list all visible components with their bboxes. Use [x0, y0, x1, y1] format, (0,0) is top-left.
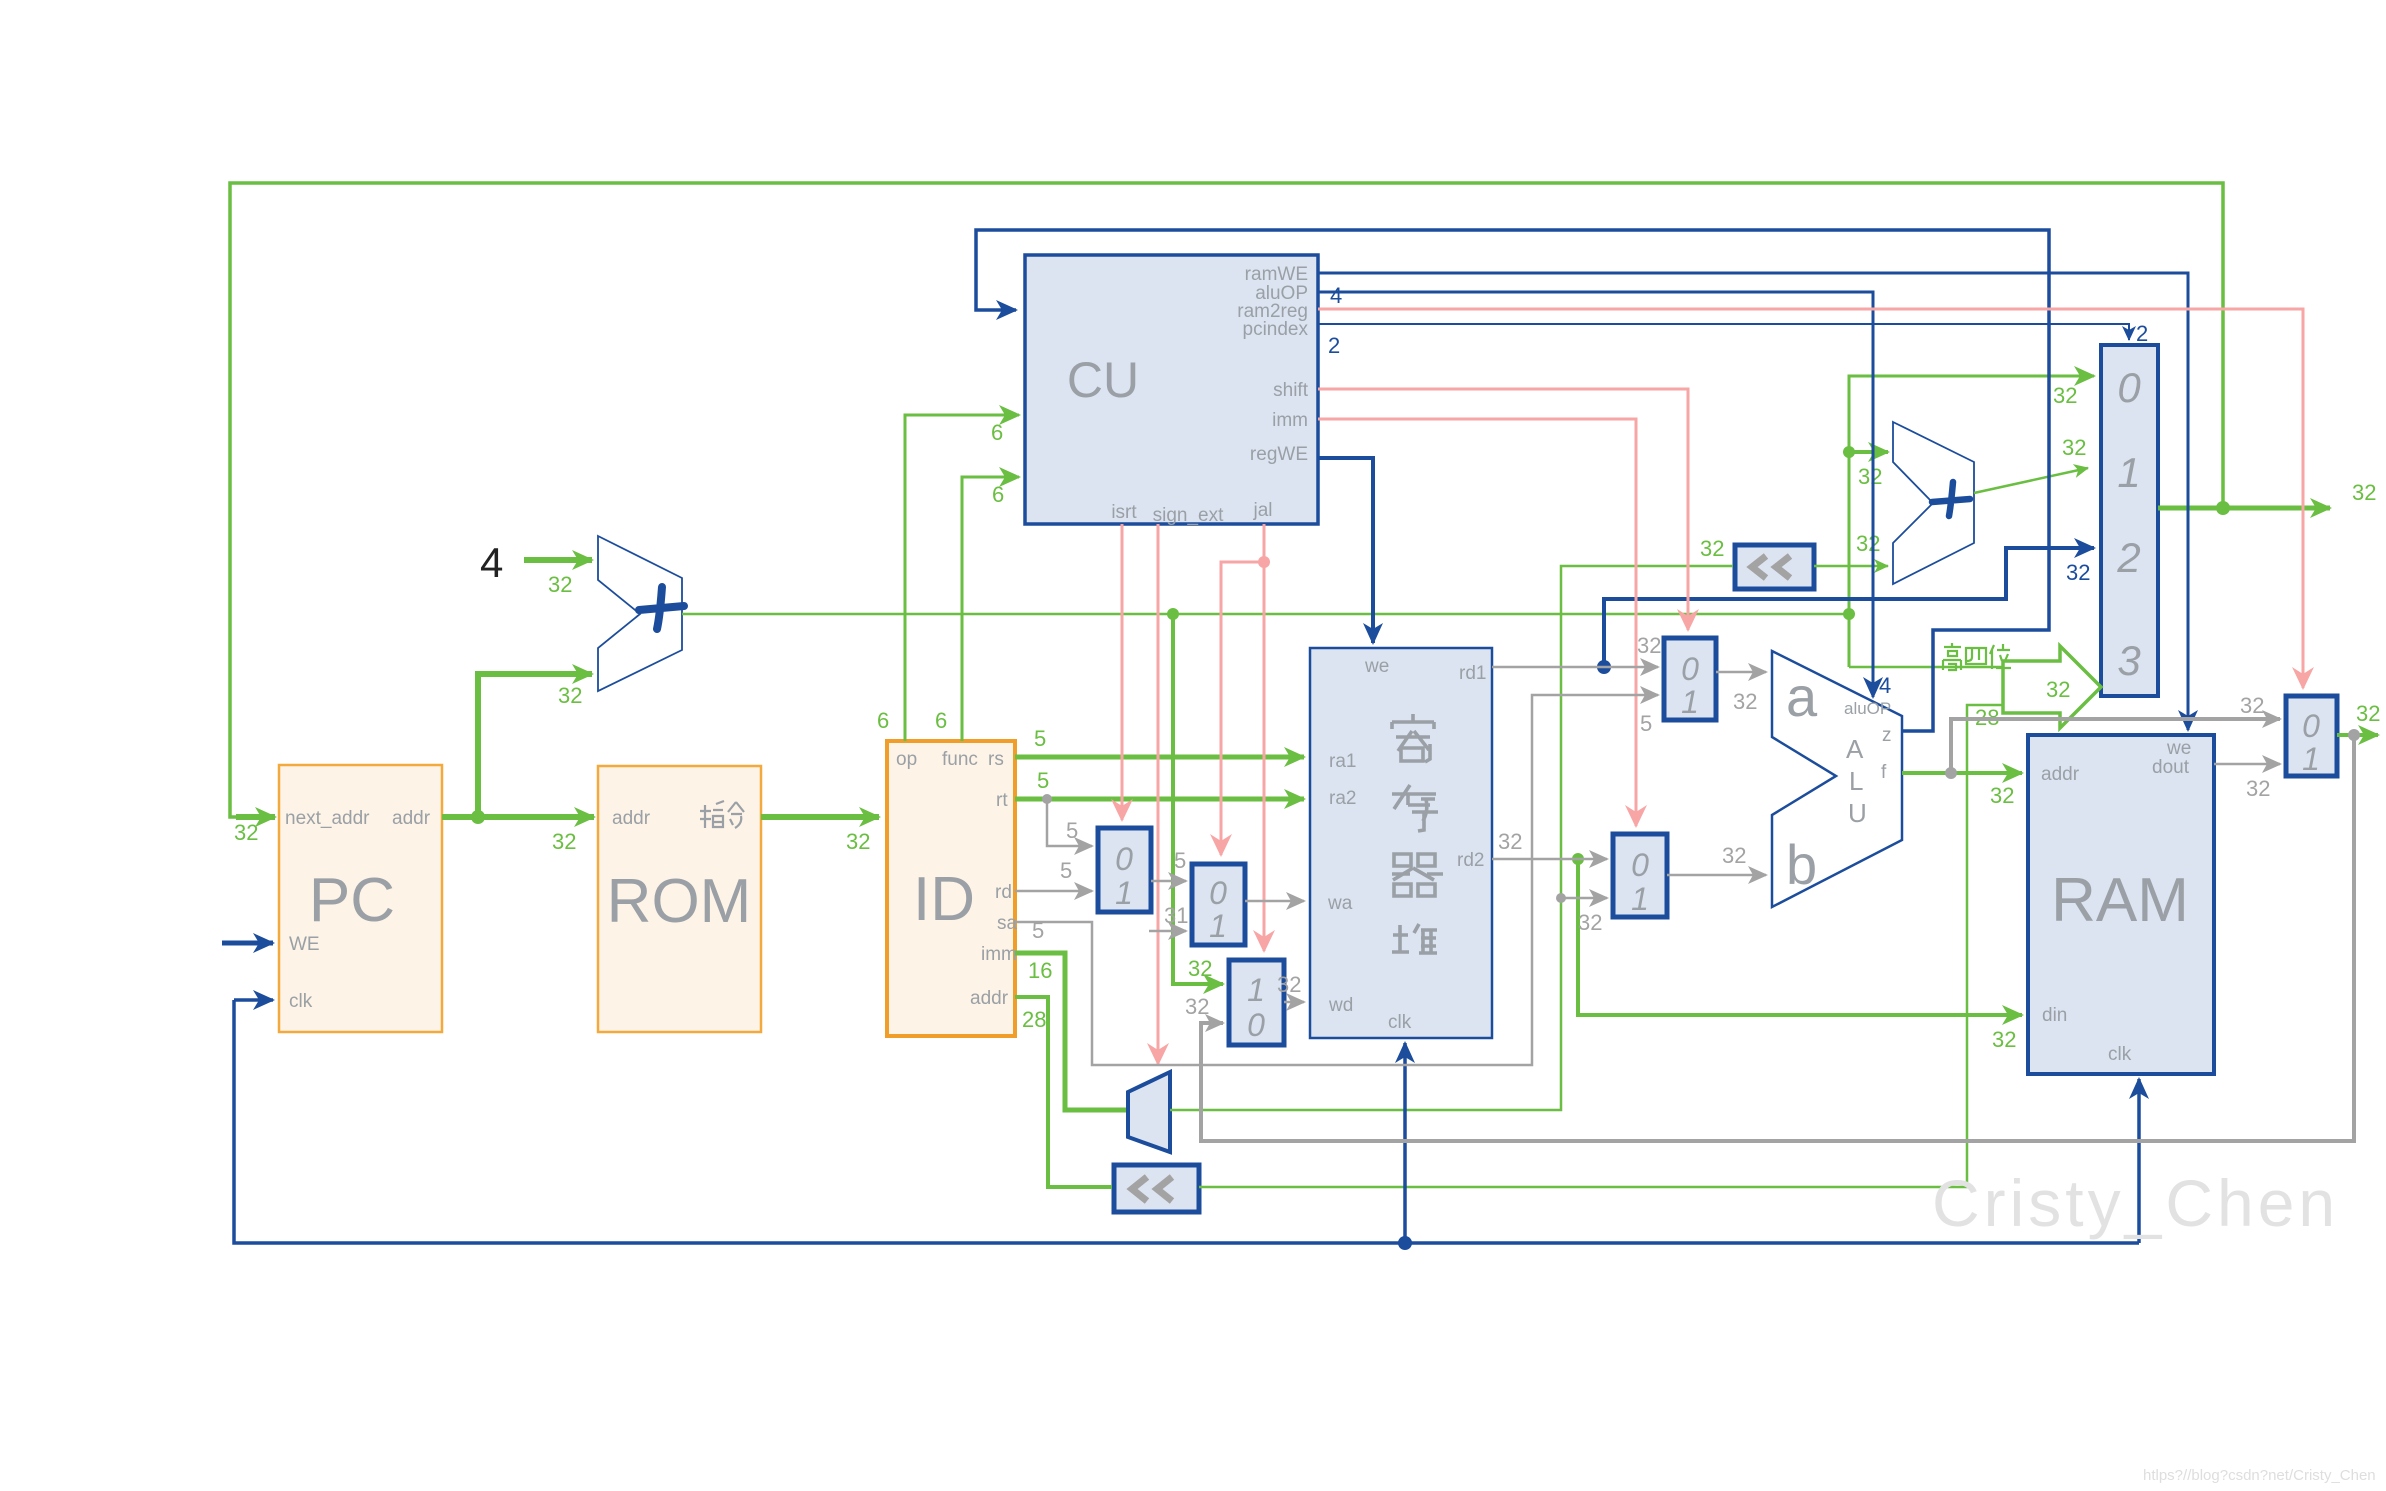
wire adder1 output PC+4 [682, 613, 1849, 616]
svg-text:32: 32 [552, 829, 576, 854]
mux MX0123 (next PC select) [2101, 345, 2158, 696]
wire rd2 -> mux MXB input 0 [1492, 858, 1607, 861]
wire ALU f -> RAM addr [1902, 771, 2022, 775]
register file Chinese label 存 [1392, 785, 1438, 831]
svg-text:din: din [2042, 1005, 2067, 1026]
node PC+4 right branch [1843, 608, 1855, 620]
mux MX2 (wa/$31 jal mux) [1192, 864, 1245, 945]
svg-text:5: 5 [1037, 768, 1049, 793]
svg-text:2: 2 [2136, 321, 2148, 346]
svg-text:rt: rt [996, 790, 1008, 811]
node adder2 input a junction [1843, 446, 1855, 458]
mux MXA (rd1/sa shift mux) [1664, 638, 1716, 720]
svg-text:rd2: rd2 [1457, 850, 1484, 871]
svg-text:sign_ext: sign_ext [1153, 505, 1224, 526]
svg-text:32: 32 [2246, 776, 2270, 801]
svg-text:4: 4 [480, 539, 503, 586]
svg-text:CU: CU [1067, 352, 1139, 408]
svg-text:28: 28 [1022, 1007, 1046, 1032]
adder ADD1 (PC+4) [598, 536, 684, 691]
ID block [887, 741, 1018, 1036]
wire RAM dout -> mux MX4 input 1 [2214, 763, 2280, 766]
svg-text:6: 6 [992, 482, 1004, 507]
wire mux MXB out -> ALU b [1667, 874, 1766, 877]
svg-text:5: 5 [1034, 726, 1046, 751]
svg-text:isrt: isrt [1111, 502, 1137, 523]
svg-text:32: 32 [1722, 843, 1746, 868]
wire mux MX3 out -> regfile wd [1284, 1001, 1304, 1004]
svg-text:32: 32 [1733, 689, 1757, 714]
wire arrow into PC next_addr [236, 814, 275, 820]
wire CU sign_ext -> sign extender select [1157, 524, 1160, 1064]
wire PC+4 vertical branch and into mux0123 input 0 [1849, 376, 2094, 667]
wire sign extender output -> SHL2 [1170, 566, 1733, 1110]
wire adder2 output -> mux0123 input 1 [1974, 468, 2088, 493]
CU block [1025, 255, 1318, 526]
wire CU regWE -> regfile we [1318, 458, 1373, 643]
wire wd return path -> mux MX3 input 0 [1201, 735, 2354, 1141]
svg-text:32: 32 [1858, 464, 1882, 489]
svg-text:op: op [896, 749, 917, 770]
svg-text:we: we [2166, 738, 2191, 759]
node mux0123 output / loop junction [2216, 501, 2230, 515]
adder ADD2 (branch target) [1893, 422, 1974, 584]
svg-text:5: 5 [1174, 848, 1186, 873]
svg-text:sa: sa [997, 913, 1018, 934]
wire PC addr -> ROM addr [442, 814, 594, 820]
svg-text:32: 32 [1856, 531, 1880, 556]
svg-text:32: 32 [1637, 633, 1661, 658]
svg-text:32: 32 [1578, 910, 1602, 935]
wire mux0123 output [2158, 506, 2330, 511]
svg-text:32: 32 [548, 572, 572, 597]
svg-text:1: 1 [1247, 972, 1265, 1008]
wire constant 31 -> mux MX2 input 1 [1149, 930, 1186, 933]
wire mux MX1 out -> mux MX2 input 0 [1151, 880, 1186, 883]
svg-text:5: 5 [1066, 818, 1078, 843]
jump address concat block arrow (高四位+28bit) [2003, 646, 2101, 728]
svg-text:32: 32 [1188, 956, 1212, 981]
svg-text:4: 4 [1879, 673, 1891, 698]
svg-text:we: we [1364, 656, 1389, 677]
svg-text:6: 6 [935, 708, 947, 733]
wire mux MXA out -> ALU a [1716, 671, 1766, 674]
svg-text:32: 32 [2352, 480, 2376, 505]
mux MX4 (ram2reg mux) [2286, 696, 2337, 777]
wire imm 16bit ID -> sign extender [1015, 953, 1126, 1110]
svg-text:0: 0 [1631, 847, 1649, 883]
svg-text:32: 32 [2356, 701, 2380, 726]
wire mux MX4 output [2337, 733, 2378, 737]
wire next PC loop (mux out -> top -> PC next_addr) [230, 183, 2223, 817]
svg-text:WE: WE [289, 934, 320, 955]
wire PC addr branch up to adder1 input b [478, 674, 592, 817]
svg-text:32: 32 [1498, 829, 1522, 854]
wire rt tap -> mux MX1 input 0 [1047, 799, 1092, 846]
ROM block [598, 766, 761, 1032]
sign extender trapezoid [1128, 1072, 1170, 1152]
wire CU pcindex -> mux0123 select [1318, 324, 2129, 340]
svg-text:5: 5 [1032, 918, 1044, 943]
node sign-ext to MXB tap [1556, 893, 1566, 903]
wire ALU z -> CU feedback [976, 230, 2049, 731]
node clk regfile junction [1398, 1236, 1412, 1250]
wire CU shift -> mux MXA select [1318, 389, 1688, 630]
svg-text:1: 1 [1209, 908, 1227, 944]
svg-text:2: 2 [1328, 333, 1340, 358]
wire clk net bottom [234, 1000, 2139, 1243]
svg-text:addr: addr [2041, 764, 2080, 785]
wire rs -> ra1 [1015, 755, 1304, 760]
shifter SHL1 (jump addr <<2) [1114, 1165, 1199, 1212]
svg-text:L: L [1849, 766, 1863, 796]
svg-text:1: 1 [2302, 741, 2320, 777]
svg-text:pcindex: pcindex [1243, 319, 1309, 340]
svg-text:32: 32 [234, 820, 258, 845]
svg-text:func: func [942, 749, 978, 770]
wire ALU f -> mux MX4 input 0 [1951, 719, 2280, 773]
svg-text:1: 1 [1681, 684, 1699, 720]
node PC addr branch [471, 810, 485, 824]
node rd2 to RAM din tap [1572, 853, 1584, 865]
svg-text:5: 5 [1640, 711, 1652, 736]
svg-text:aluOP: aluOP [1844, 699, 1891, 718]
svg-text:ROM: ROM [607, 867, 752, 936]
svg-text:31: 31 [1164, 903, 1188, 928]
svg-text:A: A [1846, 734, 1864, 764]
svg-text:f: f [1881, 762, 1887, 783]
svg-text:clk: clk [289, 991, 313, 1012]
svg-text:0: 0 [1209, 875, 1227, 911]
wire rd2 -> RAM din [1578, 859, 2022, 1015]
node wd return tap [2348, 729, 2360, 741]
node rt tap [1042, 794, 1052, 804]
svg-text:2: 2 [2116, 534, 2140, 581]
wire PC+4 branch down into mux MX3 input 1 [1173, 614, 1223, 984]
svg-text:dout: dout [2152, 757, 2190, 778]
svg-text:32: 32 [1185, 994, 1209, 1019]
svg-text:a: a [1786, 665, 1818, 728]
svg-text:wa: wa [1327, 893, 1353, 914]
svg-text:ra2: ra2 [1329, 788, 1356, 809]
svg-text:32: 32 [2066, 560, 2090, 585]
svg-text:U: U [1848, 798, 1867, 828]
wire CU jal -> mux MX3 select [1263, 524, 1266, 951]
label 高四位 drawn strokes [1943, 643, 2011, 670]
svg-text:32: 32 [2046, 677, 2070, 702]
svg-text:rd: rd [995, 882, 1012, 903]
svg-text:0: 0 [2117, 364, 2141, 411]
svg-text:1: 1 [2117, 449, 2140, 496]
svg-text:z: z [1882, 725, 1892, 746]
svg-text:1: 1 [1115, 875, 1133, 911]
svg-text:regWE: regWE [1250, 444, 1308, 465]
svg-text:b: b [1786, 833, 1817, 896]
svg-text:ra1: ra1 [1329, 751, 1356, 772]
svg-text:shift: shift [1273, 380, 1309, 401]
svg-text:6: 6 [991, 420, 1003, 445]
svg-text:htlps?//blog?csdn?net/Cristy_C: htlps?//blog?csdn?net/Cristy_Chen [2143, 1467, 2376, 1484]
svg-text:Cristy_Chen: Cristy_Chen [1932, 1166, 2339, 1240]
wire CU ramWE -> RAM we [1318, 273, 2188, 730]
svg-text:next_addr: next_addr [285, 808, 370, 829]
svg-text:clk: clk [2108, 1044, 2132, 1065]
svg-text:6: 6 [877, 708, 889, 733]
ROM output label 指令 (instruction) drawn strokes [700, 801, 744, 828]
wire SHL1 output -> up -> concat arrow low 28 bits [1199, 705, 2004, 1187]
mux MXB (rd2/imm mux) [1613, 834, 1667, 917]
svg-text:0: 0 [1115, 841, 1133, 877]
svg-text:jal: jal [1252, 500, 1272, 521]
wire CU isrt -> mux MX1 select [1121, 524, 1124, 820]
wire clk into PC [234, 998, 273, 1002]
svg-text:32: 32 [1990, 783, 2014, 808]
RAM block [2028, 735, 2214, 1074]
PC block [279, 765, 442, 1032]
svg-text:wd: wd [1328, 995, 1353, 1016]
wire op field ID -> CU [905, 415, 1019, 741]
svg-text:0: 0 [1247, 1007, 1265, 1043]
wire clk -> RAM [2137, 1079, 2141, 1243]
svg-text:0: 0 [1681, 651, 1699, 687]
svg-text:32: 32 [2053, 383, 2077, 408]
svg-text:imm: imm [1272, 410, 1308, 431]
register file Chinese label 寄 [1392, 714, 1434, 762]
svg-text:imm: imm [981, 944, 1017, 965]
wire addr 28bit ID -> shifter SHL1 [1015, 997, 1112, 1187]
svg-text:32: 32 [846, 829, 870, 854]
svg-text:32: 32 [2062, 435, 2086, 460]
register file block 寄存器堆 [1310, 648, 1492, 1038]
svg-text:4: 4 [1330, 283, 1342, 308]
svg-text:rd1: rd1 [1459, 663, 1486, 684]
wire clk -> regfile [1403, 1043, 1407, 1243]
wire 高四位 high-4-bits into concat arrow [1849, 666, 2004, 669]
svg-text:32: 32 [1277, 972, 1301, 997]
node jr tap ball on rd1 [1597, 660, 1611, 674]
svg-text:16: 16 [1028, 958, 1052, 983]
svg-text:32: 32 [1700, 536, 1724, 561]
svg-text:1: 1 [1631, 881, 1649, 917]
svg-text:ramWE: ramWE [1245, 264, 1308, 285]
wire jal branch -> mux MX2 select [1221, 562, 1264, 855]
wire mux MX2 out -> regfile wa [1245, 900, 1304, 903]
wire sign-ext value -> mux MXB input 1 [1561, 897, 1607, 900]
svg-text:32: 32 [558, 683, 582, 708]
svg-text:rs: rs [988, 749, 1004, 770]
svg-text:5: 5 [1060, 858, 1072, 883]
wire func field ID -> CU [962, 477, 1019, 741]
wire rd1 -> mux MXA input 0 (gray) [1492, 666, 1658, 669]
mux MX3 (wd/PC+4 jal mux, 1 top 0 bottom) [1229, 960, 1284, 1045]
node jal branch [1258, 556, 1270, 568]
svg-text:32: 32 [1992, 1027, 2016, 1052]
svg-text:RAM: RAM [2051, 866, 2189, 935]
svg-text:32: 32 [2240, 693, 2264, 718]
wire CU imm -> mux MXB select [1318, 419, 1636, 826]
wire CU aluOP -> ALU [1318, 292, 1873, 697]
wire ROM instruction -> ID [761, 814, 879, 820]
svg-text:3: 3 [2117, 637, 2140, 684]
svg-text:addr: addr [392, 808, 431, 829]
register file Chinese label 器 [1392, 854, 1443, 896]
svg-text:0: 0 [2302, 708, 2320, 744]
wire sa -> mux MXA input 1 [1015, 695, 1658, 1065]
svg-text:PC: PC [309, 866, 395, 935]
shifter SHL2 (branch offset <<2) [1735, 545, 1814, 589]
wire rd -> mux MX1 input 1 [1015, 890, 1092, 893]
wire rt -> ra2 [1015, 797, 1304, 802]
wire SHL2 output -> adder2 input b [1814, 565, 1888, 568]
wire to adder2 input a [1849, 450, 1888, 454]
wire WE stub into PC [222, 941, 273, 946]
mux MX1 (rt/rd dest mux) [1098, 828, 1151, 912]
wire CU ram2reg -> mux MX4 select (pink) [1318, 309, 2303, 688]
wire jr: rd1 tap -> mux0123 input 2 [1604, 548, 2094, 667]
node ALU f tap [1945, 767, 1957, 779]
svg-text:addr: addr [612, 808, 651, 829]
node PC+4 to mux3 branch [1167, 608, 1179, 620]
svg-text:ID: ID [913, 865, 975, 934]
svg-text:clk: clk [1388, 1012, 1412, 1033]
register file Chinese label 堆 [1392, 924, 1437, 953]
ALU [1772, 651, 1902, 907]
svg-text:addr: addr [970, 988, 1009, 1009]
